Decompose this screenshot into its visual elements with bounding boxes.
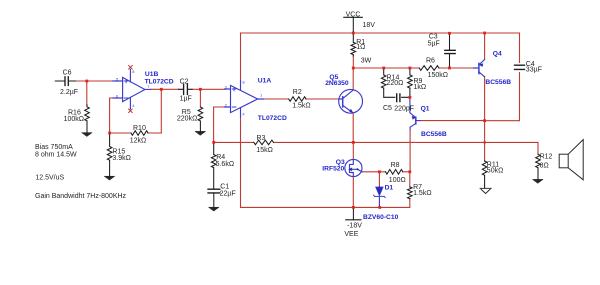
wire U1B - feedback left/down	[110, 98, 113, 133]
svg-text:D1: D1	[385, 185, 394, 192]
svg-text:BZV60-C10: BZV60-C10	[363, 214, 399, 221]
node feedback/R4/R3	[212, 141, 215, 144]
wire U1A VEE pin down to bottom rail	[240, 117, 242, 207]
node rail2/R1/Q5	[352, 67, 355, 70]
unconnected-pin X marks on U1B power pins	[129, 66, 133, 113]
svg-text:R10: R10	[133, 125, 146, 132]
resistor R16	[85, 105, 90, 133]
svg-text:1µF: 1µF	[180, 96, 192, 103]
wire D1 top lead	[378, 172, 380, 187]
wire bottom VEE rail	[241, 206, 410, 208]
svg-text:50kΩ: 50kΩ	[487, 167, 504, 174]
transistor Q1 (BC556B PNP mirrored)	[410, 98, 421, 130]
svg-text:8 ohm 14.5W: 8 ohm 14.5W	[35, 152, 77, 159]
svg-text:5µF: 5µF	[428, 40, 440, 47]
svg-text:R3: R3	[257, 135, 266, 142]
node VCC/R1	[352, 32, 355, 35]
node output rail/Q5/Q3	[352, 141, 355, 144]
wire Q5 emitter down to output rail	[352, 113, 354, 142]
resistor R3	[254, 140, 274, 145]
power VCC symbol	[344, 17, 363, 32]
svg-text:VCC: VCC	[346, 11, 361, 18]
svg-text:3.9kΩ: 3.9kΩ	[112, 155, 130, 162]
wire R7 bottom lead	[409, 199, 411, 208]
wire U1A VCC pin up to top rail	[240, 33, 242, 81]
wire Q1 collector down to gate node	[409, 130, 411, 172]
node C5/R9/Q1	[409, 96, 412, 99]
resistor R1	[351, 33, 356, 56]
svg-text:100kΩ: 100kΩ	[64, 116, 84, 123]
annotations	[35, 144, 127, 200]
ground under R15	[104, 176, 114, 180]
svg-text:Bias 750mA: Bias 750mA	[35, 144, 73, 151]
node input/R16	[85, 80, 88, 83]
capacitor C3	[449, 33, 451, 67]
svg-text:1.5kΩ: 1.5kΩ	[413, 190, 431, 197]
ground under R5	[195, 131, 205, 135]
wire U1B output to C2	[151, 88, 179, 90]
svg-text:2.2µF: 2.2µF	[60, 89, 78, 96]
svg-text:5.6kΩ: 5.6kΩ	[216, 161, 234, 168]
wires (red nets)	[75, 33, 538, 207]
svg-text:Q1: Q1	[421, 106, 430, 113]
op-amp U1A	[225, 81, 264, 118]
wire R10 leads	[110, 132, 162, 134]
node R8/R7/Q1 collector	[408, 170, 411, 173]
svg-text:33µF: 33µF	[526, 66, 542, 73]
svg-text:BC556B: BC556B	[421, 131, 447, 138]
wire C2 node down to R5	[199, 89, 201, 106]
svg-text:18V: 18V	[363, 22, 376, 29]
wire Q3 gate to R8	[362, 171, 386, 173]
svg-text:U1A: U1A	[258, 78, 272, 85]
labels: blue component designators	[145, 50, 512, 221]
node C2/R5/U1A+	[199, 88, 202, 91]
resistor R2	[289, 97, 306, 102]
wire R1 bottom to rail2 node	[352, 56, 354, 68]
svg-text:R6: R6	[426, 57, 435, 64]
resistor R10	[131, 131, 148, 136]
transistor Q3 (IRF520 MOSFET in circle)	[345, 159, 362, 176]
svg-text:1.5kΩ: 1.5kΩ	[292, 102, 310, 109]
svg-text:C6: C6	[63, 70, 72, 77]
op-amp U1B	[113, 69, 151, 109]
capacitor C6	[55, 77, 75, 86]
svg-text:BC556B: BC556B	[485, 79, 511, 86]
svg-text:15kΩ: 15kΩ	[256, 147, 273, 154]
wire Q1 base right to junction	[421, 120, 485, 122]
wire Q5 collector up	[352, 68, 354, 90]
svg-text:1kΩ: 1kΩ	[414, 84, 427, 91]
wire C2 to U1A + input	[192, 88, 225, 90]
node output rail/R11	[484, 141, 486, 143]
wire Q4 emitter up to rail	[484, 33, 486, 60]
ground under R11	[480, 188, 491, 193]
svg-text:22µF: 22µF	[220, 191, 236, 198]
capacitor C5	[384, 88, 410, 97]
node Q4 emitter/rail	[483, 32, 486, 35]
svg-text:1Ω: 1Ω	[356, 44, 365, 51]
capacitor C4	[515, 65, 525, 69]
resistor R5	[198, 107, 203, 131]
svg-text:R8: R8	[391, 162, 400, 169]
node Q1 base/Q4 collector/C4	[483, 119, 486, 122]
resistor R15	[107, 133, 112, 176]
speaker	[559, 140, 583, 180]
capacitor C1	[208, 189, 220, 193]
svg-text:220Ω: 220Ω	[387, 80, 404, 87]
svg-text:100Ω: 100Ω	[389, 177, 406, 184]
wire R12 from output rail	[537, 142, 539, 154]
node R10/R15	[108, 132, 111, 135]
wire Q4 collector down to junction	[484, 77, 486, 121]
node U1B output	[160, 88, 163, 91]
node R9/R6	[409, 67, 412, 70]
wire input node to U1B +	[75, 80, 113, 82]
wire input node down to R16	[86, 81, 88, 105]
resistor R11	[482, 161, 487, 188]
svg-text:VEE: VEE	[344, 231, 358, 238]
svg-text:U1B: U1B	[145, 71, 159, 78]
svg-text:R12: R12	[540, 154, 553, 161]
node C3 bottom	[448, 67, 451, 70]
black component bodies	[55, 17, 583, 220]
ground under R12	[533, 179, 543, 183]
ground under C1	[209, 207, 219, 211]
svg-text:C1: C1	[220, 184, 229, 191]
wire top VCC rail	[241, 32, 520, 34]
wire junction right to C4 bottom	[485, 73, 520, 121]
blue symbols	[113, 60, 485, 208]
wire output rail with R3 in series	[214, 141, 538, 143]
svg-text:150kΩ: 150kΩ	[428, 72, 448, 79]
wire U1A - input feedback	[214, 107, 225, 142]
labels: black component names/values	[60, 11, 553, 238]
wire R8 right to R7 node	[403, 171, 410, 173]
svg-text:3W: 3W	[361, 58, 372, 65]
wire output rail down to Q3 drain	[352, 142, 354, 159]
X mark top	[129, 66, 133, 70]
node R14 top	[382, 67, 385, 70]
node D1 bottom	[378, 206, 381, 209]
svg-text:12kΩ: 12kΩ	[130, 138, 147, 145]
node C3 top	[448, 32, 451, 35]
svg-text:-18V: -18V	[347, 223, 362, 230]
wire Q3 source down to VEE junction	[352, 177, 354, 208]
X mark bottom	[129, 109, 133, 113]
wire U1A output to R2	[264, 98, 289, 100]
wire junction down through output rail to R11	[484, 121, 486, 161]
resistor R9	[408, 68, 413, 88]
wire R2 to Q5 base	[306, 98, 339, 100]
wire rail2 VCC-line to Q4 base	[353, 67, 473, 69]
node gate/D1	[378, 170, 381, 173]
svg-text:C2: C2	[180, 79, 189, 86]
transistor Q4 (BC556B PNP)	[474, 60, 485, 77]
resistor R4	[211, 142, 216, 188]
resistor R8	[386, 170, 403, 175]
svg-text:Gain Bandwidht 7Hz-800KHz: Gain Bandwidht 7Hz-800KHz	[35, 193, 127, 200]
resistor R14	[381, 68, 386, 88]
wire R10 right up to output node	[160, 89, 162, 133]
node VEE junction	[352, 206, 355, 209]
pin numbers	[116, 69, 263, 116]
svg-text:220pF: 220pF	[394, 106, 414, 113]
capacitor C2	[179, 88, 193, 90]
svg-text:R2: R2	[293, 89, 302, 96]
svg-text:TL072CD: TL072CD	[258, 115, 287, 122]
wire C4 top to rail corner	[519, 33, 521, 63]
wire R7 top lead	[409, 172, 411, 187]
svg-text:Q4: Q4	[493, 50, 502, 57]
wire R11 top lead	[484, 160, 486, 162]
svg-text:220kΩ: 220kΩ	[177, 116, 197, 123]
transistor Q5 (2N6350 NPN in circle)	[339, 89, 363, 113]
power VEE symbol	[346, 207, 361, 219]
resistor R7	[408, 187, 413, 199]
ground under R16	[82, 133, 92, 137]
svg-text:C5: C5	[383, 105, 392, 112]
resistor R6	[419, 66, 439, 71]
svg-text:IRF520: IRF520	[322, 165, 344, 172]
zener diode D1 (BZV60-C10)	[374, 187, 386, 208]
svg-text:12.5V/uS: 12.5V/uS	[35, 174, 64, 181]
resistor R12	[536, 154, 541, 179]
svg-text:R4: R4	[216, 154, 225, 161]
svg-text:2N6350: 2N6350	[325, 80, 349, 87]
svg-text:8Ω: 8Ω	[540, 163, 549, 170]
